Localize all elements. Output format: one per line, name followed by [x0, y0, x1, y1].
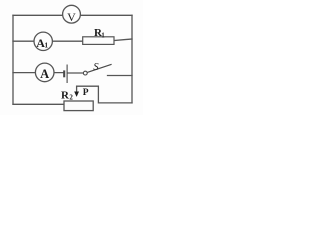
wire row3 right segment [108, 75, 133, 77]
svg-text:1: 1 [101, 31, 105, 39]
switch contact circle [83, 71, 87, 75]
wire slider stem + step to right bus [77, 86, 132, 103]
wire row2 right segment [114, 39, 132, 41]
switch S [83, 62, 111, 75]
battery long plate [66, 65, 68, 84]
wire bottom left segment [13, 103, 64, 105]
voltmeter V [63, 5, 81, 24]
battery cell [64, 65, 67, 84]
switch arm [87, 64, 111, 72]
wire left bus [12, 15, 14, 104]
wire right bus [131, 15, 133, 103]
rheostat slider arrow P [74, 88, 89, 98]
svg-text:1: 1 [44, 41, 48, 50]
svg-text:A: A [40, 67, 49, 81]
rheostat R2 box [61, 89, 93, 110]
svg-text:P: P [83, 88, 89, 98]
ammeter A [35, 63, 54, 82]
wire row2 left segment [13, 40, 83, 42]
resistor R1 box [83, 27, 114, 44]
svg-text:S: S [93, 62, 99, 73]
svg-text:2: 2 [69, 93, 73, 101]
battery short plate [63, 70, 65, 77]
wire row3 left segment [13, 72, 64, 74]
wire row3 battery-to-switch segment [67, 72, 83, 74]
svg-text:V: V [67, 10, 76, 24]
wire top branch [13, 14, 132, 16]
ammeter A1 [34, 32, 52, 50]
